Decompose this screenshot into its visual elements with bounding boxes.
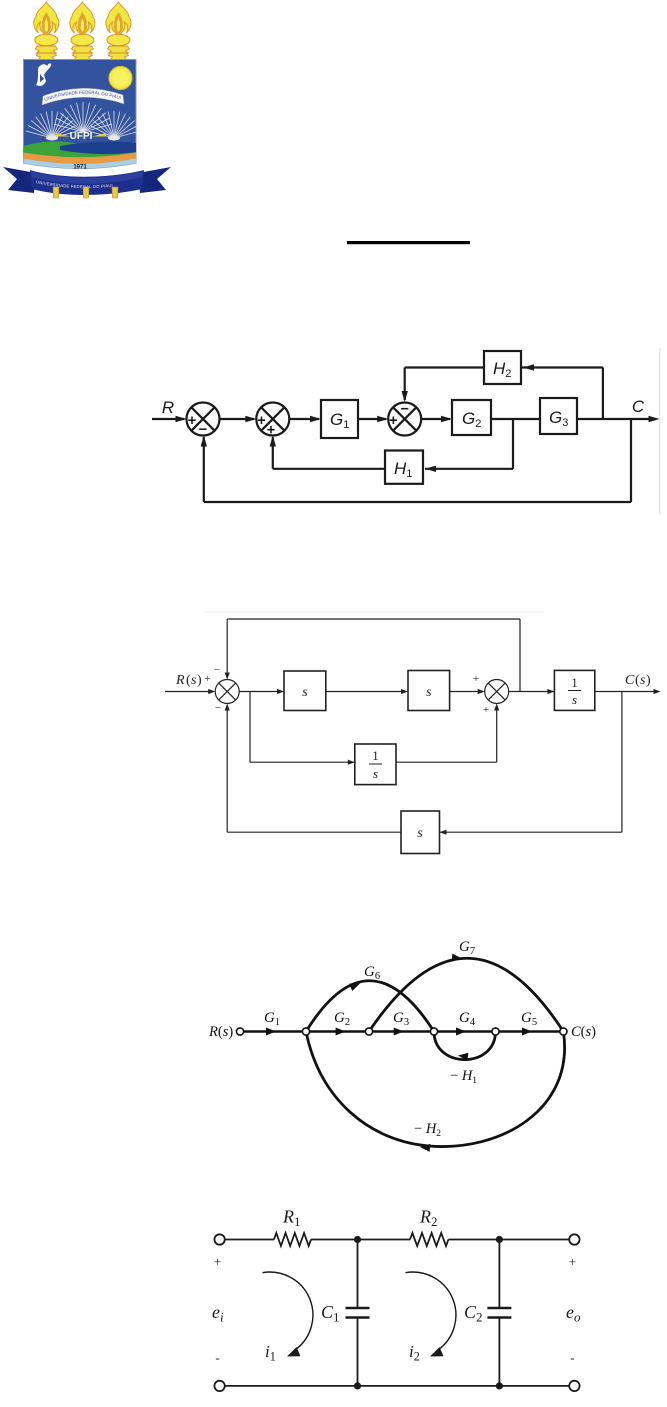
svg-text:−: −: [214, 664, 220, 676]
svg-text:1971: 1971: [73, 165, 87, 171]
svg-text:+: +: [267, 423, 275, 439]
svg-text:−: −: [199, 422, 207, 438]
svg-text:s: s: [302, 685, 308, 700]
svg-text:1: 1: [571, 675, 578, 690]
svg-text:-: -: [215, 1350, 219, 1365]
svg-text:+: +: [473, 673, 479, 685]
svg-text:+: +: [389, 413, 397, 429]
svg-text:s: s: [417, 826, 423, 841]
svg-text:+: +: [214, 1254, 221, 1269]
svg-text:): ): [197, 673, 202, 688]
svg-text:R: R: [162, 398, 174, 417]
svg-text:1: 1: [372, 748, 379, 763]
svg-text:−: −: [215, 702, 221, 714]
svg-text:+: +: [204, 673, 210, 685]
svg-text:+: +: [483, 704, 489, 716]
svg-text:+: +: [188, 413, 196, 429]
svg-text:s: s: [373, 766, 378, 781]
svg-text:s: s: [572, 692, 577, 707]
svg-text:C(s): C(s): [571, 1024, 596, 1040]
svg-text:): ): [646, 673, 651, 688]
svg-text:−: −: [400, 402, 408, 418]
svg-text:C: C: [625, 673, 635, 688]
svg-text:C: C: [632, 397, 645, 416]
svg-text:-: -: [570, 1350, 574, 1365]
svg-text:UFPI: UFPI: [70, 131, 93, 142]
svg-text:+: +: [569, 1254, 576, 1269]
svg-text:s: s: [426, 685, 432, 700]
svg-text:R: R: [175, 673, 185, 688]
svg-text:+: +: [257, 413, 265, 429]
svg-text:R(s): R(s): [208, 1024, 233, 1040]
